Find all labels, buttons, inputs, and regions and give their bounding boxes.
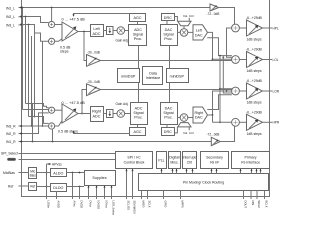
wire micbias to ALDO [37,172,51,174]
svg-text:Signal: Signal [133,32,143,36]
svg-text:0.5 dB steps: 0.5 dB steps [58,129,78,133]
svg-text:Reset: Reset [8,158,15,161]
block Interrupt Ctrl [182,152,196,169]
label right PGA steps [58,129,78,133]
pin LDO_Select [112,195,116,215]
svg-text:ADC: ADC [92,32,100,36]
driver LOL [246,48,279,74]
svg-text:Misc.: Misc. [170,160,178,164]
summing node P right [49,107,55,113]
svg-text:ALDO: ALDO [53,171,63,175]
svg-text:PLL: PLL [158,158,164,162]
pin LDOin [47,195,51,209]
svg-text:DVDD: DVDD [80,201,84,209]
driver HPL [246,16,279,42]
svg-text:-6...+29dB: -6...+29dB [246,110,262,114]
svg-text:BCLK: BCLK [265,201,269,208]
pin MFP5 [181,195,185,208]
driver LOR [246,79,280,105]
summing node M right [49,123,55,129]
svg-text:IN3_R: IN3_R [6,125,16,129]
wire ref to DLDO [37,186,51,188]
pin SCLK [148,195,152,208]
svg-text:GPIO: GPIO [164,201,168,208]
svg-text:Ref: Ref [8,185,13,189]
svg-text:-72...0dB: -72...0dB [207,12,220,16]
mixer HPL [232,24,247,32]
pin IN3_L [6,23,24,27]
svg-text:Proc.: Proc. [134,116,143,120]
svg-text:DAC: DAC [165,28,173,32]
svg-text:LDO_Select: LDO_Select [112,201,116,216]
mixer LOL [232,56,247,64]
wire AGC to ADC signal proc [137,21,139,24]
pin SPI_Select [1,152,24,156]
block Data Interface [143,67,163,85]
block Right ADC [91,107,104,122]
wire SPI_Select run [21,153,116,155]
svg-text:Ctrl: Ctrl [187,160,193,164]
block DAC Signal Proc left [161,25,178,46]
pin IOVDD [97,195,101,209]
svg-text:Pin Muxing/ Clock Routing: Pin Muxing/ Clock Routing [183,181,224,185]
svg-text:DLDO: DLDO [53,186,63,190]
svg-text:Signal: Signal [163,111,173,115]
amplifier right PGA [62,104,78,123]
block ADC Signal Proc left [129,25,147,46]
svg-text:Signal: Signal [133,111,143,115]
svg-text:1dB steps: 1dB steps [247,132,262,136]
svg-text:HPVss: HPVss [52,162,62,166]
svg-text:Proc.: Proc. [164,37,173,41]
svg-text:miniDSP: miniDSP [121,74,136,78]
label Vol Ctrl left [183,14,194,18]
mixer HPR [232,118,247,126]
chip border [22,0,270,197]
block DRC right [162,128,175,136]
wire AGC gain control to left PGA [72,14,129,17]
wire DRC right to volume control right [174,127,189,133]
block SPI I2C Control Block [116,152,153,169]
block miniDSP D [167,69,189,83]
svg-text:AVDD: AVDD [57,201,61,208]
svg-text:LOL: LOL [273,58,279,62]
block DLDO [51,184,67,192]
wire Reset run [21,159,116,161]
svg-text:DAC: DAC [195,116,203,120]
label MAL gain [207,12,220,16]
svg-text:DVss: DVss [89,201,93,208]
pin IN2_L [6,15,24,19]
wire right PGA to ADC [78,113,91,115]
svg-text:Left: Left [196,29,202,33]
svg-text:IN3_L: IN3_L [6,23,15,27]
svg-text:SDA/MOSI: SDA/MOSI [133,201,137,214]
wire AGC gain control to right PGA [72,130,129,133]
label HPVss arrow [47,162,63,166]
svg-text:ADC: ADC [134,28,142,32]
volume control trapezoid left [178,21,191,25]
wire DLDO to supplies [66,186,84,188]
svg-text:DOUT: DOUT [244,201,248,209]
svg-text:SPI_Select: SPI_Select [1,152,18,156]
pin MicBias [3,171,24,175]
svg-text:Vol. Ctrl: Vol. Ctrl [183,14,194,18]
svg-text:LDOin: LDOin [47,201,51,209]
pin Ref [8,185,24,189]
pin DOUT [244,195,248,208]
svg-text:DAC: DAC [165,107,173,111]
wire IN3_R run [20,125,48,127]
block PLL [157,152,167,169]
svg-text:steps: steps [60,49,69,53]
label MAR gain [207,133,220,137]
block Left ADC [91,25,104,37]
svg-text:IN1_L: IN1_L [6,7,15,11]
pin WCLK [257,195,261,208]
svg-text:I²S Interface: I²S Interface [241,160,260,164]
label Gain Adj left [116,39,129,43]
svg-text:1dB steps: 1dB steps [247,38,262,42]
multiplier gain adj right [113,110,130,118]
label right PGA gain [62,100,86,105]
svg-text:AGC: AGC [134,16,142,20]
block decimator right [103,110,113,118]
pin AVss [73,195,77,207]
svg-text:0 ... +47.5 dB: 0 ... +47.5 dB [62,100,86,105]
svg-text:DRC: DRC [164,16,172,20]
svg-text:ADC: ADC [92,114,100,118]
wire LDO input vertical [46,164,48,197]
svg-text:MFP5: MFP5 [181,201,185,209]
svg-text:-6...+29dB: -6...+29dB [246,48,262,52]
amplifier MAL top bypass [210,4,235,24]
pin IN3_R [6,125,24,129]
pin IN2_R [6,132,24,136]
svg-text:Gain Adj.: Gain Adj. [116,39,129,43]
wire left PGA to ADC [78,31,91,33]
mixer LOR [232,87,247,95]
pin AVDD [57,195,61,208]
pin DIN [251,195,255,205]
svg-text:-6...+29dB: -6...+29dB [246,16,262,20]
pin DVDD [80,195,84,208]
wire miniDSP D to right DAC SP [169,83,171,103]
pin DVss [89,195,93,208]
block Supplies [85,171,116,186]
pin SDA_MOSI [133,195,137,214]
svg-text:-30...0dB: -30...0dB [87,80,100,84]
block Mic Bias [21,168,37,179]
wire ALDO to supplies [66,172,84,174]
svg-text:DAC: DAC [195,33,203,37]
svg-text:SPI / I²C: SPI / I²C [127,156,141,160]
svg-text:Vol. Ctrl: Vol. Ctrl [183,131,194,135]
svg-text:Signal: Signal [163,32,173,36]
wire staircase into right channel summing [23,104,49,124]
wire IN2_R run [20,113,49,135]
driver HPR [246,110,280,136]
block ALDO [51,169,67,177]
svg-text:SCL/SS: SCL/SS [127,201,131,211]
svg-text:IOVDD: IOVDD [97,201,101,210]
svg-text:1dB steps: 1dB steps [247,69,262,73]
label left PGA gain [62,17,86,22]
svg-text:IN2_R: IN2_R [6,132,16,136]
svg-text:HPL: HPL [273,26,279,30]
multiplier DAC left [177,26,193,37]
block Digital Misc [169,152,181,169]
svg-text:Interface: Interface [146,76,160,80]
svg-text:HPR: HPR [273,121,280,125]
wire IN3_L [20,24,48,42]
amplifier left PGA [62,22,78,41]
svg-text:Left: Left [93,27,100,31]
amplifier mixer amp L [84,32,232,67]
pin SCL_SS [127,195,131,210]
svg-text:Proc.: Proc. [164,116,173,120]
pin GPIO [164,195,168,207]
wire DAC SP to miniDSP D [169,46,171,69]
svg-text:1dB steps: 1dB steps [247,101,262,105]
block Primary I2S Interface [232,152,270,169]
wire IN2_L [20,16,48,23]
block Ref [21,183,37,191]
block AGC right [130,128,146,136]
pin Reset (active low) [7,158,23,162]
wire DRC to DAC signal proc [166,21,168,25]
block DAC Signal Proc right [161,103,178,125]
wire vertical bus between channels [23,8,44,127]
svg-text:LOR: LOR [273,89,280,93]
svg-text:MicBias: MicBias [3,171,15,175]
svg-text:0 ... +47.5 dB: 0 ... +47.5 dB [62,17,86,22]
svg-text:Data: Data [149,71,158,75]
svg-text:ADC: ADC [135,107,143,111]
wires blocks to pin muxing with arrows [161,169,262,174]
pin MISO [142,195,146,207]
block Left DAC [193,25,208,40]
label Gain Adj right [116,102,129,106]
svg-text:AVss: AVss [73,201,77,208]
svg-text:miniDSP: miniDSP [170,74,185,78]
summing node P left [49,21,55,27]
svg-text:Primary: Primary [244,156,256,160]
summing node M left [49,38,55,44]
svg-text:IOVss: IOVss [105,201,109,209]
block Right DAC [193,107,208,123]
block decimator left [103,27,113,35]
svg-text:-72...0dB: -72...0dB [207,133,220,137]
svg-text:Gain Adj.: Gain Adj. [116,102,129,106]
wire Right DAC to mixers [207,90,232,122]
svg-text:IN1_R: IN1_R [6,140,16,144]
svg-text:Digital/: Digital/ [169,156,180,160]
block Pin Muxing Clock Routing [139,174,269,191]
multiplier gain adj left [113,27,129,35]
svg-text:MISO: MISO [142,201,146,208]
svg-text:I²S I/F: I²S I/F [210,160,220,164]
wire SPI direct pin drops [126,169,134,197]
wire ADC SP to miniDSP A [138,46,140,69]
amplifier mixer amp R [81,84,232,115]
label left PGA steps [60,45,71,53]
wire supply pin drops [57,173,113,197]
wire cross routing verticals to lower mixers [219,55,232,124]
svg-text:IN2_L: IN2_L [6,15,15,19]
block DRC left [162,14,175,21]
block ADC Signal Proc right [131,103,148,125]
block miniDSP A [118,69,140,83]
svg-text:-6...+29dB: -6...+29dB [246,79,262,83]
wire DRC right to DAC SP [166,125,168,128]
pin BCLK [265,195,269,208]
svg-text:Proc.: Proc. [134,37,143,41]
wire miniDSP A to right ADC SP [138,83,140,103]
svg-text:DIN: DIN [251,201,255,206]
label mixer amp R gain [87,80,100,84]
svg-text:Control Block: Control Block [124,160,145,164]
svg-text:Supplies: Supplies [92,176,106,180]
svg-text:SCLK: SCLK [148,201,152,208]
wire IN1_L run to mixer amp MAL [20,7,232,22]
svg-text:Secondary: Secondary [206,156,223,160]
svg-text:WCLK: WCLK [257,201,261,209]
svg-text:Bias: Bias [30,173,37,177]
wire summing nodes to left PGA [55,25,62,42]
block AGC left [130,14,146,22]
svg-text:Ref: Ref [30,185,35,189]
svg-text:Right: Right [92,110,102,114]
svg-text:DRC: DRC [164,130,172,134]
multiplier DAC right [177,114,193,123]
pin IN1_R [6,140,24,144]
svg-text:Interrupt/: Interrupt/ [182,156,196,160]
volume control trapezoid right [178,123,191,127]
wire IN1_R run to mixer amp MAR [20,104,211,143]
label Vol Ctrl right [183,131,194,135]
wire ADC SP right to AGC [137,125,139,128]
pin IOVss [105,195,109,208]
pin IN1_L [6,7,24,11]
svg-text:-30...0dB: -30...0dB [87,50,100,54]
svg-text:Right: Right [194,111,203,115]
amplifier MAR bottom bypass [211,126,234,146]
block Secondary I2S IF [201,152,229,169]
wire summing nodes to right PGA [55,110,62,126]
wire DRC to volume control [174,17,189,22]
wires pin muxing to bottom pins [142,191,265,197]
wire Left DAC to mixers [207,28,232,60]
label mixer amp L gain [87,50,100,54]
svg-text:AGC: AGC [134,130,142,134]
